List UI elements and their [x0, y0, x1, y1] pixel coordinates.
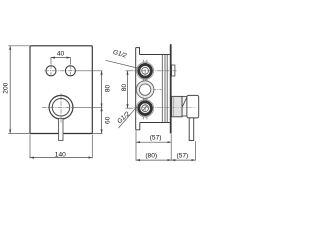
G1/2 bottom leader	[118, 107, 136, 128]
dim 40 extension lines	[51, 57, 70, 64]
valve body outline (side view)	[136, 48, 170, 130]
dim (80) line	[136, 159, 171, 161]
dim 140 extension lines	[30, 135, 92, 159]
ports vertical centerline	[144, 61, 146, 118]
svg-text:80: 80	[105, 85, 112, 93]
dim 60 line (front right)	[101, 107, 103, 133]
dim 200 line	[9, 46, 11, 134]
svg-text:(57): (57)	[177, 152, 189, 159]
G1/2 top leader	[106, 60, 141, 68]
rosette centerline through lever	[60, 119, 62, 123]
handle rosette inner circle (front)	[52, 99, 70, 117]
push button left centerlines	[44, 64, 77, 77]
port G1/2 bottom (side)	[137, 100, 154, 117]
svg-text:40: 40	[57, 50, 65, 57]
port centerline bottom (cartridge axis)	[134, 107, 188, 109]
body flange lines	[162, 55, 167, 123]
svg-text:80: 80	[121, 84, 128, 92]
wall plate edge-on (side view)	[170, 44, 172, 133]
port middle (side)	[136, 81, 154, 99]
svg-text:200: 200	[3, 82, 10, 93]
side dims extension lines	[136, 130, 195, 160]
port connecting nubs	[143, 60, 147, 119]
cartridge centerline through handle	[172, 106, 196, 108]
handle tilt line	[182, 97, 187, 108]
dim 80 ports line	[127, 71, 129, 108]
push button right (front)	[65, 66, 75, 76]
lever (front view)	[59, 118, 64, 140]
dim 40 line	[51, 57, 70, 59]
dim (57) lower line	[171, 159, 195, 161]
handle rosette outer circle (front)	[49, 95, 73, 119]
escutcheon screw line	[173, 96, 175, 116]
handle escutcheon (side)	[172, 96, 183, 116]
port centerline middle	[136, 89, 162, 91]
handle neck (side)	[182, 96, 187, 116]
port G1/2 top (side)	[137, 62, 154, 79]
dim 200 extension lines	[8, 46, 29, 134]
svg-text:G1/2: G1/2	[116, 110, 131, 125]
svg-text:60: 60	[105, 116, 112, 124]
svg-text:(80): (80)	[145, 152, 157, 159]
rosette centerlines	[42, 93, 75, 119]
front plate	[30, 46, 92, 134]
dim (57) upper line	[136, 141, 171, 143]
handle grip (side)	[187, 95, 199, 118]
screw slot bottom port	[142, 106, 147, 111]
svg-text:(57): (57)	[150, 135, 162, 142]
push button left (front)	[46, 66, 56, 76]
port centerline top	[134, 70, 177, 72]
svg-text:G1/2: G1/2	[112, 49, 128, 60]
svg-text:140: 140	[55, 151, 66, 158]
dim 80 line (front right)	[101, 71, 103, 108]
top port pass-through stub	[172, 65, 175, 76]
handle lever bar (side)	[189, 118, 194, 141]
dim 140 line	[30, 157, 92, 159]
dim 80 ports extension ticks	[126, 71, 134, 108]
push button right centerline vertical	[69, 64, 71, 77]
right chained dim extension lines	[73, 71, 102, 134]
